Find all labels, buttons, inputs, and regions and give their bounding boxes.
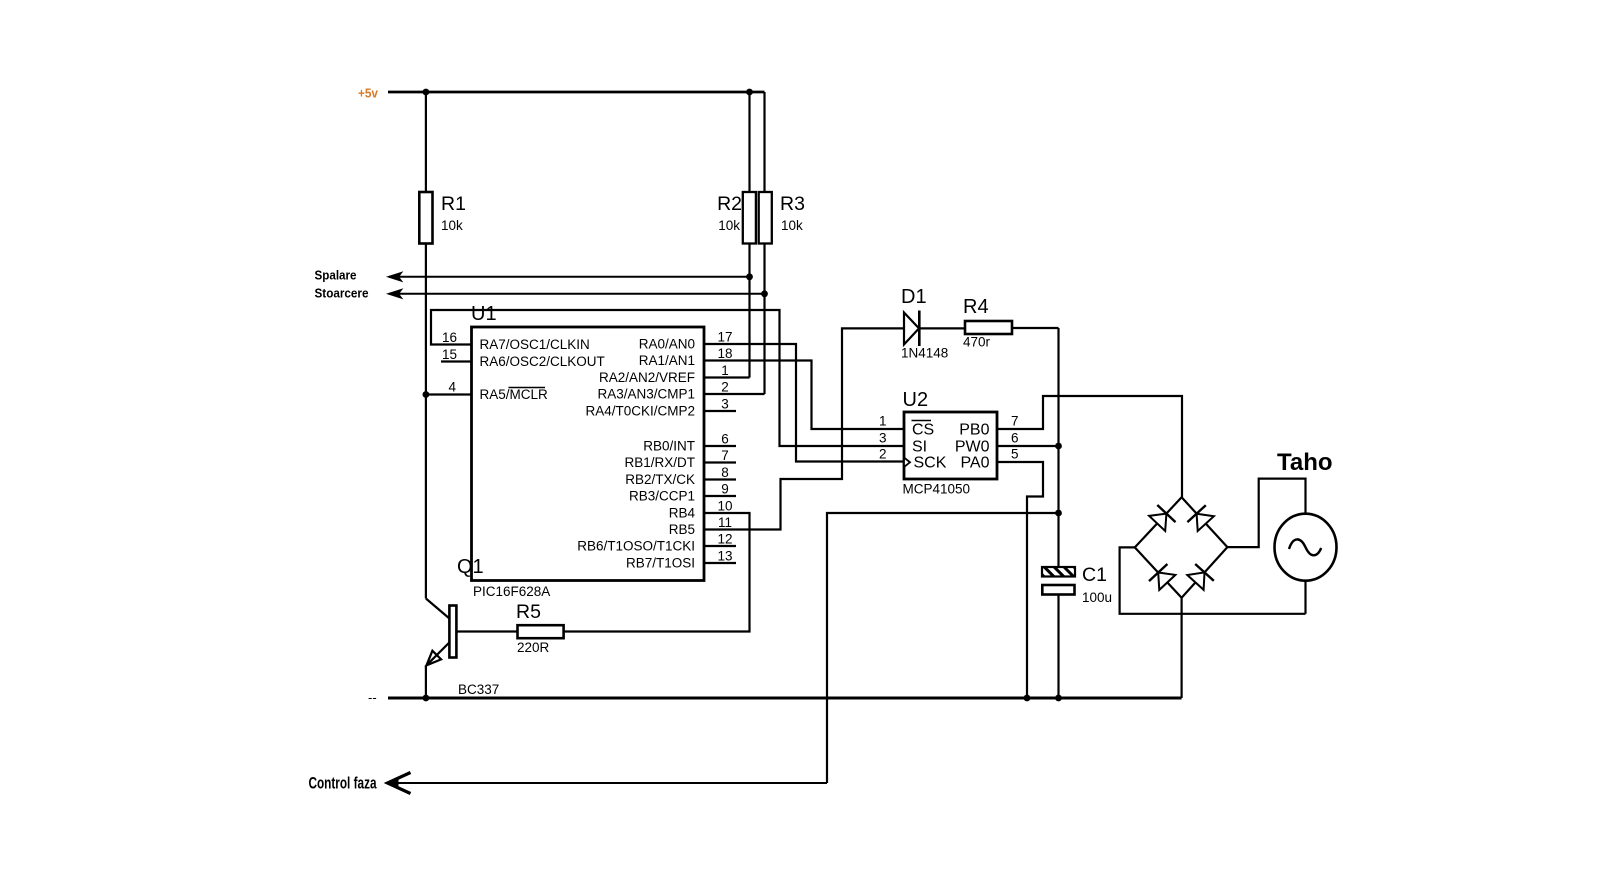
- resistor R2: [743, 192, 756, 244]
- arrow Stoarcere: [388, 289, 403, 298]
- svg-text:RB6/T1OSO/T1CKI: RB6/T1OSO/T1CKI: [577, 539, 695, 554]
- svg-text:+5v: +5v: [358, 86, 379, 101]
- svg-text:RA4/T0CKI/CMP2: RA4/T0CKI/CMP2: [585, 404, 695, 419]
- junction Stoarcere / R3 line: [761, 290, 768, 297]
- svg-text:7: 7: [721, 448, 729, 463]
- svg-text:R5: R5: [516, 601, 541, 623]
- wire C1 bottom to bottom rail: [1057, 595, 1059, 699]
- svg-text:RA6/OSC2/CLKOUT: RA6/OSC2/CLKOUT: [480, 354, 605, 369]
- svg-text:MCP41050: MCP41050: [903, 482, 971, 497]
- junction +5v / R1 top: [423, 89, 430, 96]
- svg-text:10k: 10k: [441, 218, 463, 233]
- svg-text:RA7/OSC1/CLKIN: RA7/OSC1/CLKIN: [480, 337, 590, 352]
- svg-text:10: 10: [717, 499, 732, 514]
- svg-text:Taho: Taho: [1277, 449, 1333, 476]
- svg-text:SI: SI: [912, 439, 927, 456]
- wire U1 pin15 stub: [441, 360, 472, 362]
- diode D1: [904, 313, 919, 345]
- svg-text:RA5/MCLR: RA5/MCLR: [480, 387, 549, 402]
- svg-text:2: 2: [721, 380, 729, 395]
- wire R1 bottom to Q1 collector (node MCLR): [425, 244, 427, 599]
- svg-text:1: 1: [879, 414, 887, 429]
- wire U2 pin7 PB0 to bridge top: [997, 396, 1182, 497]
- svg-text:2: 2: [879, 447, 887, 462]
- svg-text:PW0: PW0: [955, 439, 990, 456]
- svg-text:3: 3: [879, 431, 887, 446]
- wire U1 stub pin at y=411: [704, 410, 736, 412]
- overline MCLR: [509, 387, 546, 389]
- svg-text:6: 6: [1011, 431, 1019, 446]
- svg-text:8: 8: [721, 465, 729, 480]
- junction C1 / bottom rail: [1055, 695, 1062, 702]
- IC U2 MCP41050 body: [904, 412, 997, 479]
- svg-text:SCK: SCK: [914, 455, 947, 472]
- junction +5v / R2 top: [746, 89, 753, 96]
- wire R4 to C1 node: [1012, 327, 1059, 329]
- svg-text:R3: R3: [780, 193, 805, 215]
- svg-text:R2: R2: [717, 193, 742, 215]
- bridge diode bottom-left: [1158, 573, 1175, 590]
- arrow Control faza: [388, 773, 411, 794]
- wire U1 pin17 RA0 to U2 pin2 SCK: [704, 344, 904, 462]
- svg-text:5: 5: [1011, 447, 1019, 462]
- wire U1 pin16 RA7 to U2 pin3 SI: [431, 310, 904, 446]
- bridge diode top-left: [1149, 514, 1166, 531]
- wire bottom rail (ground return): [388, 697, 1182, 700]
- Q1 emitter lead: [427, 643, 450, 666]
- wire Spalare: [389, 276, 750, 278]
- svg-text:Spalare: Spalare: [315, 268, 357, 283]
- svg-text:18: 18: [717, 346, 732, 361]
- svg-text:RB0/INT: RB0/INT: [643, 439, 695, 454]
- svg-text:220R: 220R: [517, 640, 550, 655]
- wire U1 stub pin at y=546: [704, 545, 736, 547]
- svg-text:15: 15: [442, 347, 457, 362]
- wire U1 stub pin at y=496: [704, 495, 736, 497]
- svg-text:1: 1: [721, 363, 729, 378]
- svg-text:100u: 100u: [1082, 590, 1112, 605]
- overline CS: [912, 420, 932, 422]
- wire R3 top lead: [763, 92, 765, 192]
- wire U2 pin5 PA0 to bottom rail: [997, 462, 1043, 698]
- wire R2 top lead: [748, 92, 750, 192]
- svg-text:U1: U1: [471, 303, 497, 325]
- wire U1 pin11 RB5 to D1 anode: [704, 328, 904, 529]
- AC source Taho: [1275, 514, 1337, 581]
- svg-text:BC337: BC337: [458, 682, 499, 697]
- junction PW0 / C1 node: [1055, 443, 1062, 450]
- bridge diode top-right: [1197, 514, 1214, 531]
- svg-text:Stoarcere: Stoarcere: [315, 286, 369, 301]
- svg-text:PB0: PB0: [959, 422, 989, 439]
- wire U1 stub pin at y=446: [704, 445, 736, 447]
- wire U1 stub pin at y=462: [704, 461, 736, 463]
- junction PA0 / bottom rail: [1024, 695, 1031, 702]
- wire R1 top lead: [425, 92, 427, 192]
- svg-text:R4: R4: [963, 296, 989, 318]
- svg-text:RB2/TX/CK: RB2/TX/CK: [625, 472, 695, 487]
- svg-text:17: 17: [717, 330, 732, 345]
- svg-text:4: 4: [448, 380, 456, 395]
- capacitor C1 bottom plate: [1042, 585, 1074, 595]
- wire R2 bottom to U1 pin1 (net Spalare): [748, 244, 750, 378]
- wire U1 pin4 RA5/MCLR: [426, 393, 472, 395]
- Q1 emitter arrow: [427, 651, 442, 666]
- wire U1 stub pin at y=563: [704, 562, 736, 564]
- svg-text:10k: 10k: [781, 218, 803, 233]
- transistor Q1 base bar: [449, 606, 456, 658]
- wire Stoarcere: [389, 293, 765, 295]
- svg-text:Q1: Q1: [457, 556, 484, 578]
- wire U1 pin2 RA3 to R3 line: [704, 393, 765, 395]
- svg-text:U2: U2: [903, 389, 929, 411]
- wire U1 pin10 RB4 to R5: [564, 513, 750, 632]
- svg-text:RA0/AN0: RA0/AN0: [639, 337, 695, 352]
- wire wiper node to Control faza: [827, 513, 1059, 783]
- svg-text:1N4148: 1N4148: [901, 346, 948, 361]
- wire U1 stub pin at y=479: [704, 478, 736, 480]
- svg-text:C1: C1: [1082, 564, 1107, 586]
- svg-text:Control faza: Control faza: [309, 774, 377, 793]
- U2 SCK clock triangle: [904, 458, 910, 468]
- arrow Spalare: [388, 272, 403, 281]
- svg-text:13: 13: [717, 549, 732, 564]
- svg-text:470r: 470r: [963, 335, 991, 350]
- svg-text:CS: CS: [912, 422, 934, 439]
- svg-text:RB4: RB4: [669, 506, 696, 521]
- junction Q1 emitter / bottom rail: [423, 695, 430, 702]
- resistor R3: [759, 192, 772, 244]
- wire R3 bottom to U1 pin2 (net Stoarcere): [763, 244, 765, 395]
- junction MCLR node / pin4 wire: [423, 391, 430, 398]
- wire R5 to Q1 base: [457, 630, 518, 632]
- wire bridge bottom vertex to bottom rail: [1180, 598, 1182, 698]
- resistor R5: [518, 625, 564, 638]
- Q1 collector lead: [426, 599, 450, 620]
- wire R4 node vertical to C1 top: [1057, 328, 1059, 567]
- D1 cathode bar: [918, 311, 921, 347]
- svg-text:PA0: PA0: [960, 455, 989, 472]
- resistor R1: [419, 192, 432, 244]
- svg-text:R1: R1: [441, 193, 466, 215]
- junction wiper line / C1 node: [1055, 510, 1062, 517]
- svg-text:6: 6: [721, 432, 729, 447]
- resistor R4: [965, 321, 1012, 334]
- svg-text:RB1/RX/DT: RB1/RX/DT: [624, 455, 695, 470]
- wire U2 pin6 PW0 to C1 node: [997, 445, 1059, 447]
- svg-text:16: 16: [442, 330, 457, 345]
- svg-text:D1: D1: [901, 286, 927, 308]
- wire Control faza: [390, 782, 827, 784]
- IC U1 PIC16F628A body: [472, 327, 705, 581]
- bridge rectifier diamond: [1135, 497, 1228, 597]
- svg-text:3: 3: [721, 397, 729, 412]
- junction Spalare / R2 line: [746, 273, 753, 280]
- wire Q1 emitter to bottom rail: [425, 665, 427, 698]
- svg-text:RB3/CCP1: RB3/CCP1: [629, 489, 695, 504]
- svg-text:PIC16F628A: PIC16F628A: [473, 584, 550, 599]
- svg-text:10k: 10k: [718, 218, 740, 233]
- svg-text:7: 7: [1011, 414, 1019, 429]
- svg-text:--: --: [368, 690, 377, 705]
- wire +5v top rail: [388, 91, 765, 94]
- wire U1 pin1 RA2 to R2 line: [704, 376, 750, 378]
- wire D1 cathode to R4: [919, 327, 965, 329]
- svg-text:9: 9: [721, 482, 729, 497]
- wire bridge right vertex to Taho top: [1227, 479, 1305, 547]
- svg-text:RB7/T1OSI: RB7/T1OSI: [626, 556, 695, 571]
- svg-text:RA3/AN3/CMP1: RA3/AN3/CMP1: [597, 387, 695, 402]
- svg-text:RA2/AN2/VREF: RA2/AN2/VREF: [599, 370, 695, 385]
- svg-text:11: 11: [718, 515, 732, 530]
- wire Taho bottom: [1304, 580, 1306, 614]
- wire bridge left vertex to Taho bottom: [1120, 547, 1306, 613]
- svg-text:RA1/AN1: RA1/AN1: [639, 353, 695, 368]
- wire U1 pin18 RA1 to U2 pin1 CS: [704, 361, 904, 430]
- svg-text:RB5: RB5: [669, 522, 695, 537]
- bridge diode bottom-right: [1187, 572, 1204, 589]
- svg-text:12: 12: [717, 532, 732, 547]
